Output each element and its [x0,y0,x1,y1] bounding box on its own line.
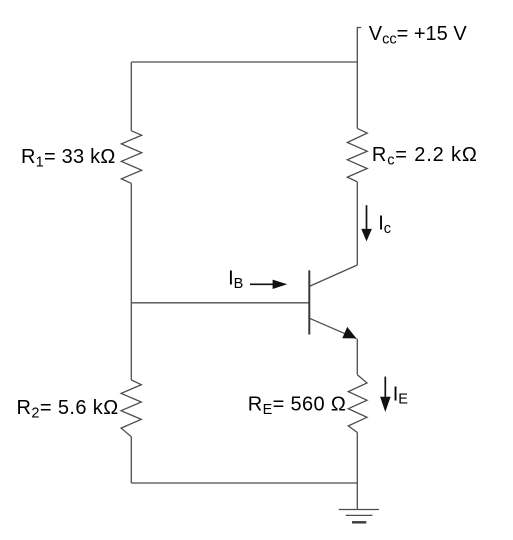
svg-text:Vcc= +15 V: Vcc= +15 V [369,23,468,47]
svg-text:IB: IB [228,268,243,292]
svg-text:RE= 560 Ω: RE= 560 Ω [248,394,346,418]
svg-text:R2= 5.6 kΩ: R2= 5.6 kΩ [17,397,119,421]
svg-text:IE: IE [393,383,409,407]
svg-text:Rc= 2.2 kΩ: Rc= 2.2 kΩ [372,144,478,168]
svg-text:R1= 33 kΩ: R1= 33 kΩ [21,146,116,170]
svg-text:Ic: Ic [378,213,391,237]
